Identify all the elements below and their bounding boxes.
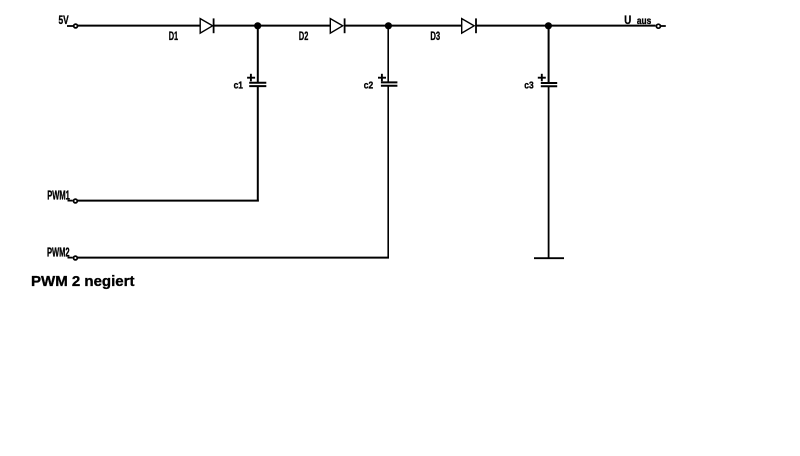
diode D2	[330, 18, 344, 33]
capacitor C1	[249, 83, 266, 86]
label U aus	[624, 13, 651, 27]
wire C2 branch: node 2 down to C2 top plate	[387, 27, 389, 82]
svg-text:U: U	[624, 13, 631, 27]
svg-text:aus: aus	[637, 16, 652, 27]
terminal PWM2	[68, 256, 78, 260]
wire C1 branch: node 1 down to C1 top plate	[257, 27, 259, 83]
ground	[534, 257, 564, 259]
wire C3 branch: node 3 down to C3 top plate	[548, 27, 550, 83]
terminal 5V	[67, 24, 78, 28]
svg-text:c1: c1	[234, 81, 244, 92]
wire C2 branch: C2 bottom plate down to PWM2 wire	[387, 86, 389, 259]
junction node 3 (D3 cathode / C3)	[545, 22, 552, 29]
terminal U aus	[656, 24, 665, 28]
wire top rail: D3 cathode to U aus terminal	[476, 25, 656, 27]
capacitor C2	[381, 82, 398, 85]
wire top rail: D1 cathode to D2 anode	[214, 25, 331, 27]
diode D3	[462, 18, 476, 33]
diode D1	[200, 18, 213, 33]
polarity plus of C3	[538, 74, 546, 82]
junction node 2 (D2 cathode / C2)	[385, 22, 392, 29]
svg-text:PWM2: PWM2	[47, 246, 70, 260]
wire PWM2 horizontal to C2 branch	[78, 257, 389, 259]
junction node 1 (D1 cathode / C1)	[254, 22, 261, 29]
wire PWM1 horizontal to C1 branch	[78, 200, 259, 202]
svg-text:PWM 2 negiert: PWM 2 negiert	[31, 273, 135, 290]
wire top rail: D2 cathode to D3 anode	[345, 25, 462, 27]
terminal PWM1	[68, 199, 78, 203]
polarity plus of C2	[378, 74, 386, 82]
svg-text:5V: 5V	[59, 13, 69, 27]
svg-text:c3: c3	[524, 81, 534, 92]
wire C1 branch: C1 bottom plate down to PWM1 wire	[257, 86, 259, 201]
svg-text:PWM1: PWM1	[47, 189, 70, 203]
svg-text:D1: D1	[169, 29, 179, 43]
svg-text:c2: c2	[364, 81, 374, 92]
svg-text:D3: D3	[430, 29, 440, 43]
svg-text:D2: D2	[299, 29, 309, 43]
wire top rail: 5V terminal to D1 anode	[78, 25, 200, 27]
capacitor C3	[541, 83, 557, 86]
wire C3 branch: C3 bottom plate down to ground	[548, 86, 550, 258]
polarity plus of C1	[247, 74, 255, 82]
